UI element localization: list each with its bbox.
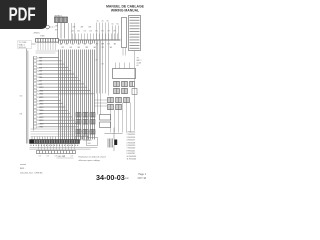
svg-text:34-00-03: 34-00-03 bbox=[96, 173, 125, 182]
connector J5 shell bbox=[122, 18, 127, 48]
svg-text:OCT 18: OCT 18 bbox=[138, 177, 147, 180]
svg-text:A1: A1 bbox=[72, 30, 74, 33]
terminal 18 bbox=[34, 112, 37, 114]
wire row 20 bbox=[40, 119, 75, 121]
svg-text:9 RG5262: 9 RG5262 bbox=[127, 153, 136, 155]
TB2 labels bbox=[39, 156, 74, 158]
svg-text:5 RG5258: 5 RG5258 bbox=[127, 142, 136, 144]
legend list bbox=[127, 132, 137, 161]
wire labels under bus bbox=[60, 43, 117, 50]
terminal 14 bbox=[34, 99, 37, 101]
svg-text:18W37: 18W37 bbox=[37, 114, 43, 116]
terminal 7 bbox=[34, 76, 37, 78]
wire row 16 bbox=[40, 106, 66, 108]
svg-text:101-105, 110 : CFM 56: 101-105, 110 : CFM 56 bbox=[20, 173, 43, 175]
terminal 1 bbox=[34, 56, 37, 58]
schematic bbox=[18, 15, 142, 162]
svg-text:PDF: PDF bbox=[9, 4, 36, 25]
K2 feeder wires bbox=[97, 40, 109, 96]
wire row 14 bbox=[40, 99, 61, 101]
svg-text:22W41: 22W41 bbox=[37, 127, 43, 129]
svg-text:00: 00 bbox=[137, 65, 139, 67]
wire row 9 bbox=[40, 83, 85, 85]
label right bbox=[137, 58, 142, 68]
main bus bbox=[59, 39, 121, 41]
wire row 7 bbox=[40, 76, 78, 78]
PDF badge bbox=[0, 0, 47, 29]
splice SP1 (solid) bbox=[114, 140, 117, 146]
terminal 17 bbox=[34, 109, 37, 111]
wire row 22 bbox=[40, 126, 80, 128]
svg-text:Realisation en debut de chaine: Realisation en debut de chaine bbox=[79, 156, 107, 159]
svg-text:2W21: 2W21 bbox=[37, 61, 42, 63]
terminal 3 bbox=[34, 63, 37, 65]
svg-text:6W25: 6W25 bbox=[37, 74, 42, 76]
right drop wires bbox=[111, 103, 131, 133]
TB1 pin stubs bbox=[32, 137, 55, 140]
wire row 17 bbox=[40, 109, 68, 111]
svg-text:5W24: 5W24 bbox=[37, 71, 42, 73]
header title block bbox=[106, 4, 145, 12]
terminal 19 bbox=[34, 116, 37, 118]
wire row 4 bbox=[40, 66, 69, 68]
wire row 19 bbox=[40, 116, 73, 118]
wire row 6 bbox=[40, 73, 75, 75]
fan-out ladder bbox=[32, 41, 95, 140]
svg-text:12W31: 12W31 bbox=[37, 94, 43, 96]
vertical wire bundle bbox=[59, 41, 95, 140]
svg-text:105: 105 bbox=[71, 156, 74, 158]
lower bus lines bbox=[30, 147, 98, 149]
svg-text:EFF :: EFF : bbox=[20, 168, 26, 170]
terminal 8 bbox=[34, 79, 37, 81]
relay block K1 label bbox=[18, 41, 36, 50]
svg-text:C3: C3 bbox=[84, 31, 86, 33]
wire row 8 bbox=[40, 80, 81, 82]
svg-text:13W32: 13W32 bbox=[37, 97, 43, 99]
splice leads bbox=[105, 128, 123, 152]
ladder rail bbox=[33, 57, 35, 131]
svg-text:11 RG5264: 11 RG5264 bbox=[127, 159, 137, 161]
svg-text:Page 1: Page 1 bbox=[138, 173, 146, 176]
terminal 15 bbox=[34, 103, 37, 105]
svg-text:D4: D4 bbox=[90, 31, 92, 33]
short stub wires under strip J1 bbox=[38, 42, 56, 50]
terminal 10 bbox=[34, 86, 37, 88]
svg-text:19W38: 19W38 bbox=[37, 117, 43, 119]
svg-text:20W39: 20W39 bbox=[37, 120, 43, 122]
terminal 12 bbox=[34, 93, 37, 95]
svg-text:28VDC: 28VDC bbox=[34, 33, 41, 35]
terminal 21 bbox=[34, 122, 37, 124]
svg-text:6W: 6W bbox=[89, 27, 92, 29]
connector group P3 bbox=[76, 130, 95, 141]
wire row 1 bbox=[40, 57, 59, 59]
svg-text:10 RG5263: 10 RG5263 bbox=[127, 156, 137, 158]
svg-text:21W40: 21W40 bbox=[37, 123, 43, 125]
wire row 2 bbox=[40, 60, 62, 62]
svg-text:9W28: 9W28 bbox=[37, 84, 42, 86]
connector J5 pin table bbox=[129, 16, 141, 51]
terminal 2 bbox=[34, 60, 37, 62]
svg-text:2 RG5255: 2 RG5255 bbox=[127, 134, 136, 136]
terminal 9 bbox=[34, 83, 37, 85]
wire row 5 bbox=[40, 70, 72, 72]
terminal strip TB1 (dark band) bbox=[30, 140, 80, 144]
terminal 22 bbox=[34, 126, 37, 128]
svg-text:effectuee apres cablage: effectuee apres cablage bbox=[79, 159, 101, 162]
terminal 4 bbox=[34, 66, 37, 68]
svg-text:2W: 2W bbox=[73, 27, 76, 29]
right feeder line bbox=[134, 51, 136, 131]
terminal 11 bbox=[34, 89, 37, 91]
wire row 18 bbox=[40, 113, 71, 115]
switch S1 block bbox=[100, 115, 111, 128]
riser wires to connector J5 bbox=[97, 23, 109, 41]
wire row 11 bbox=[40, 90, 91, 92]
svg-text:4 RG5257: 4 RG5257 bbox=[127, 140, 136, 142]
wire row 3 bbox=[40, 63, 65, 65]
svg-text:6 RG5259: 6 RG5259 bbox=[127, 145, 136, 147]
svg-text:1W20: 1W20 bbox=[37, 57, 42, 59]
TB1-TB2 jumper wires bbox=[39, 144, 75, 151]
wire row 15 bbox=[40, 103, 64, 105]
terminal id labels under TB1 bbox=[31, 144, 79, 146]
riser wires right bbox=[113, 26, 119, 41]
probe P1 bbox=[37, 25, 55, 29]
wires mesh to K3 bbox=[95, 100, 108, 106]
svg-text:102: 102 bbox=[47, 156, 50, 158]
svg-text:3W22: 3W22 bbox=[37, 64, 42, 66]
svg-text:1 RG5254: 1 RG5254 bbox=[127, 132, 136, 134]
left feeder wire bbox=[27, 49, 28, 144]
relay box K2 bbox=[113, 69, 136, 79]
bottom feeder horizontals bbox=[31, 129, 96, 137]
svg-text:8 RG5261: 8 RG5261 bbox=[127, 150, 136, 152]
svg-text:11W30: 11W30 bbox=[37, 90, 43, 92]
connector group P2 bbox=[76, 113, 95, 125]
svg-text:GND: GND bbox=[88, 140, 93, 142]
svg-text:con: con bbox=[125, 177, 130, 180]
risers to M1 area bbox=[69, 23, 75, 40]
svg-text:14W33: 14W33 bbox=[37, 100, 43, 102]
svg-text:16W35: 16W35 bbox=[37, 107, 43, 109]
terminal 5 bbox=[34, 70, 37, 72]
svg-text:GND 105: GND 105 bbox=[58, 156, 66, 158]
pin labels bbox=[55, 21, 119, 33]
footer page/date bbox=[138, 173, 147, 180]
svg-text:G7: G7 bbox=[108, 31, 110, 33]
note text bbox=[79, 156, 107, 163]
ground module box bbox=[87, 138, 98, 146]
svg-text:1W: 1W bbox=[55, 26, 58, 28]
svg-text:4W23: 4W23 bbox=[37, 67, 42, 69]
wire bundle from M1 bbox=[58, 23, 65, 39]
svg-text:ESS: ESS bbox=[41, 36, 46, 38]
top sensor unit M1 bbox=[55, 15, 68, 23]
svg-text:WIRING MANUAL: WIRING MANUAL bbox=[111, 8, 139, 12]
svg-text:15W34: 15W34 bbox=[37, 104, 43, 106]
wire labels mid right bbox=[96, 60, 105, 66]
terminal 16 bbox=[34, 106, 37, 108]
wire row 10 bbox=[40, 86, 88, 88]
svg-text:7G: 7G bbox=[96, 44, 99, 46]
terminal 6 bbox=[34, 73, 37, 75]
svg-text:8W27: 8W27 bbox=[37, 81, 42, 83]
svg-text:10W29: 10W29 bbox=[37, 87, 43, 89]
svg-text:34-25-00: 34-25-00 bbox=[19, 47, 26, 49]
shell stub wires bbox=[123, 48, 126, 56]
svg-text:7 RG5260: 7 RG5260 bbox=[127, 148, 136, 150]
footer effectivity bbox=[20, 165, 43, 175]
svg-text:B2: B2 bbox=[78, 31, 80, 33]
wire row 12 bbox=[40, 93, 94, 95]
wire row 21 bbox=[40, 123, 77, 125]
svg-text:204: 204 bbox=[88, 143, 91, 145]
contact group K2a bbox=[114, 82, 135, 94]
terminal strip TB2 bbox=[37, 151, 76, 154]
inline component F1 bbox=[132, 89, 137, 95]
terminal 13 bbox=[34, 96, 37, 98]
shield terminator bbox=[108, 139, 113, 148]
terminal 20 bbox=[34, 119, 37, 121]
svg-text:4W: 4W bbox=[81, 27, 84, 29]
svg-text:3 RG5256: 3 RG5256 bbox=[127, 137, 136, 139]
svg-text:7W26: 7W26 bbox=[37, 77, 42, 79]
bus pin ticks bbox=[73, 34, 118, 41]
wire row 13 bbox=[40, 96, 59, 98]
svg-text:17W36: 17W36 bbox=[37, 110, 43, 112]
svg-text:101: 101 bbox=[39, 156, 42, 158]
wires bundle to S1 bbox=[98, 40, 101, 115]
connector strip J1 bbox=[36, 39, 59, 43]
contact group K3 bbox=[108, 98, 130, 110]
